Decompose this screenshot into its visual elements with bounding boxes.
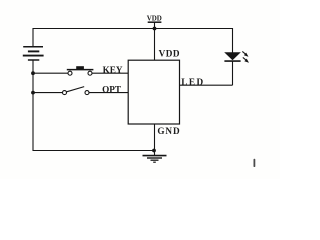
wire KEY row left xyxy=(33,72,68,74)
wire VDD pin stub xyxy=(154,22,156,60)
text cursor caret xyxy=(254,159,256,167)
power symbol VDD bar xyxy=(148,21,162,23)
svg-text:VDD: VDD xyxy=(159,48,180,58)
wire left battery negative branch xyxy=(32,60,34,151)
node junction bottom rail xyxy=(152,149,156,153)
battery BT1 xyxy=(23,47,44,60)
node junction KEY row xyxy=(31,71,35,75)
svg-text:VDD: VDD xyxy=(147,15,162,23)
node junction top rail xyxy=(153,27,157,31)
svg-text:LED: LED xyxy=(181,77,204,87)
IC U1 box xyxy=(128,60,179,124)
svg-text:GND: GND xyxy=(157,126,180,136)
ground symbol xyxy=(143,156,167,163)
LED light arrow 2 xyxy=(243,57,249,62)
wire GND pin xyxy=(154,124,156,156)
LED D1 xyxy=(224,52,241,60)
pushbutton KEY xyxy=(67,70,94,76)
wire top VDD rail xyxy=(33,29,233,53)
svg-text:OPT: OPT xyxy=(102,84,121,94)
wire LED branch lower xyxy=(232,61,234,85)
LED light arrow 1 xyxy=(242,51,248,56)
wire LED pin xyxy=(180,84,233,86)
svg-text:KEY: KEY xyxy=(103,65,123,75)
node junction OPT row xyxy=(31,91,35,95)
wire bottom rail xyxy=(33,150,155,152)
wire OPT row right xyxy=(89,92,128,94)
wire OPT row left xyxy=(33,92,62,94)
switch OPT xyxy=(63,87,90,95)
wire KEY row right xyxy=(92,72,128,74)
